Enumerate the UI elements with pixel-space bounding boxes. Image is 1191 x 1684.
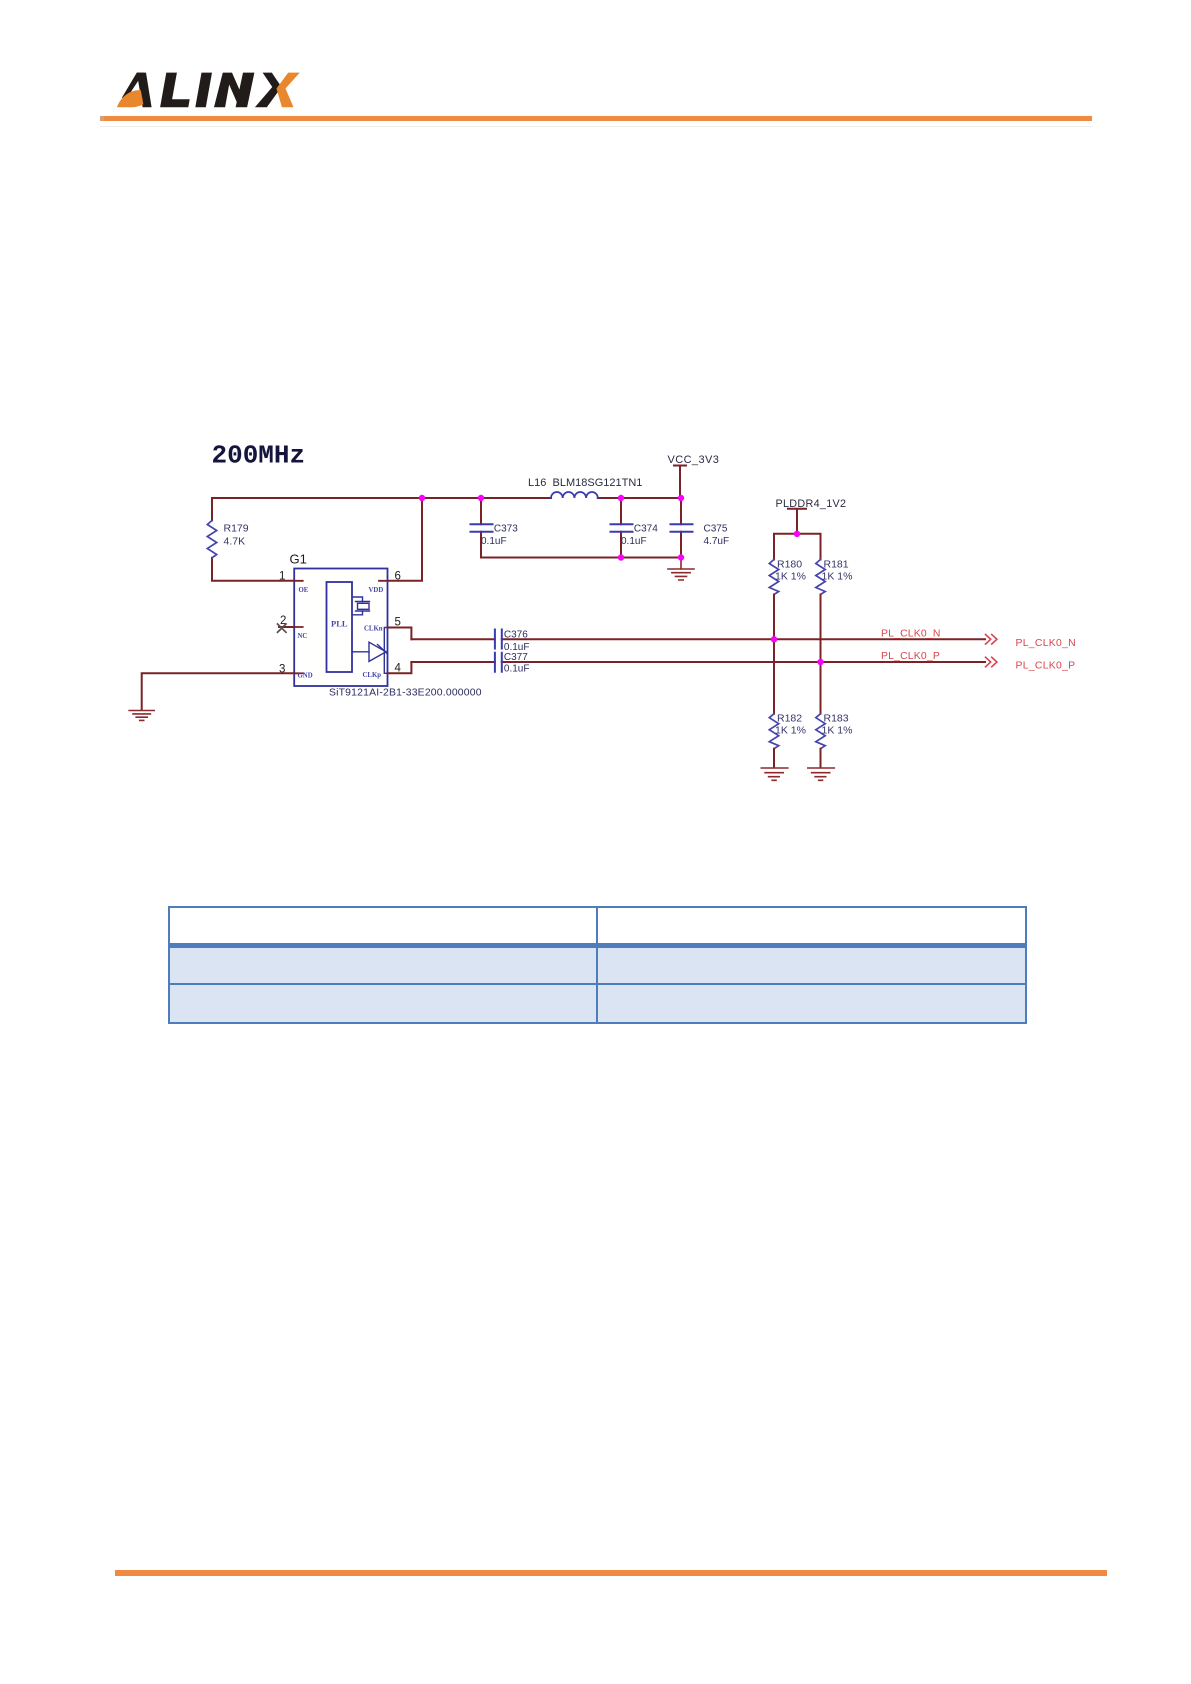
svg-text:0.1uF: 0.1uF xyxy=(481,536,507,547)
resistor R181 xyxy=(816,559,853,595)
capacitor C375 xyxy=(671,498,730,558)
capacitor C377 xyxy=(411,652,985,675)
capacitor C376 xyxy=(411,630,985,654)
wire pin6 riser xyxy=(388,498,423,581)
svg-text:VCC_3V3: VCC_3V3 xyxy=(668,454,720,466)
IC G1 SiT9121 oscillator xyxy=(279,552,402,687)
inductor L16 xyxy=(528,477,642,498)
svg-text:4.7uF: 4.7uF xyxy=(704,536,730,547)
svg-text:1K 1%: 1K 1% xyxy=(822,725,853,737)
svg-text:C376: C376 xyxy=(504,630,528,641)
wire top rail left xyxy=(212,497,551,499)
wire N line to R182 xyxy=(773,639,775,713)
pin inner stubs xyxy=(294,581,387,674)
svg-text:L16: L16 xyxy=(528,477,546,489)
svg-text:R179: R179 xyxy=(224,523,249,535)
pin2 NC stub xyxy=(279,626,294,628)
letter L xyxy=(160,73,190,108)
power VCC_3V3 xyxy=(668,454,720,498)
svg-text:6: 6 xyxy=(395,571,401,583)
letter A orange swoosh xyxy=(117,90,143,107)
letter X black part xyxy=(255,73,282,108)
wire R181 to P line xyxy=(820,595,822,663)
PLL block xyxy=(327,582,353,672)
svg-text:CLKn: CLKn xyxy=(364,626,383,633)
svg-text:R180: R180 xyxy=(777,559,802,571)
svg-text:1: 1 xyxy=(279,571,285,583)
svg-text:PL_CLK0_P: PL_CLK0_P xyxy=(1016,661,1076,672)
letter A black xyxy=(137,73,152,108)
port chevron N xyxy=(986,635,997,645)
ALINX logo xyxy=(0,0,1191,140)
svg-text:G1: G1 xyxy=(290,552,307,567)
letter N xyxy=(214,73,254,108)
svg-text:R181: R181 xyxy=(824,559,849,571)
svg-text:VDD: VDD xyxy=(369,587,384,594)
svg-text:PLL: PLL xyxy=(331,619,348,629)
header orange rule xyxy=(100,116,1092,121)
power PLDDR4_1V2 xyxy=(774,498,846,560)
wire pin4 to P line xyxy=(388,662,412,673)
pin labels xyxy=(298,587,384,680)
resistor R179 xyxy=(207,498,294,581)
svg-text:C377: C377 xyxy=(504,652,528,663)
output buffer triangle xyxy=(352,628,388,674)
svg-text:BLM18SG121TN1: BLM18SG121TN1 xyxy=(553,477,643,489)
svg-text:NC: NC xyxy=(298,633,308,640)
svg-text:PL_CLK0_N: PL_CLK0_N xyxy=(1016,638,1076,649)
svg-text:CLKp: CLKp xyxy=(363,672,382,679)
svg-text:C373: C373 xyxy=(494,524,518,535)
wire pin5 to N line xyxy=(388,628,412,640)
svg-text:PL_CLK0_N: PL_CLK0_N xyxy=(881,629,941,640)
port chevron P xyxy=(986,657,997,667)
svg-text:4.7K: 4.7K xyxy=(224,536,246,548)
svg-text:C375: C375 xyxy=(704,524,728,535)
ground under R183 xyxy=(808,768,835,780)
wire R180 to N line xyxy=(773,595,775,640)
svg-text:200MHz: 200MHz xyxy=(212,441,306,471)
svg-text:1K 1%: 1K 1% xyxy=(775,571,806,583)
footer orange rule xyxy=(115,1570,1107,1576)
svg-text:R183: R183 xyxy=(824,713,849,725)
ground at G1 pin3 xyxy=(129,711,154,721)
svg-text:1K 1%: 1K 1% xyxy=(775,725,806,737)
resistor R183 xyxy=(816,713,853,749)
svg-text:C374: C374 xyxy=(634,524,658,535)
svg-text:PLDDR4_1V2: PLDDR4_1V2 xyxy=(776,498,847,510)
letter I xyxy=(195,73,212,108)
capacitor C374 xyxy=(611,498,659,558)
svg-text:1K 1%: 1K 1% xyxy=(822,571,853,583)
no-ERC cross xyxy=(278,624,287,632)
svg-text:0.1uF: 0.1uF xyxy=(621,536,647,547)
junction dots xyxy=(419,495,824,665)
svg-text:SiT9121AI-2B1-33E200.000000: SiT9121AI-2B1-33E200.000000 xyxy=(329,688,482,699)
resistor R182 xyxy=(769,713,806,749)
svg-text:OE: OE xyxy=(299,587,309,594)
letter X orange part xyxy=(277,73,300,108)
wire R182 to ground xyxy=(773,749,775,768)
svg-text:0.1uF: 0.1uF xyxy=(504,664,530,675)
crystal symbol xyxy=(352,597,370,615)
wire R183 to ground xyxy=(820,749,822,768)
wire top rail right xyxy=(598,497,681,499)
wire caps bottom rail xyxy=(481,557,681,559)
resistor R180 xyxy=(769,559,806,595)
svg-text:R182: R182 xyxy=(777,713,802,725)
wire P line to R183 xyxy=(820,662,822,714)
wire pin3 to ground xyxy=(142,673,295,710)
parameter table xyxy=(168,906,1027,1024)
svg-text:GND: GND xyxy=(298,673,313,680)
svg-text:PL_CLK0_P: PL_CLK0_P xyxy=(881,651,940,662)
capacitor C373 xyxy=(471,498,519,558)
ground under R182 xyxy=(761,768,788,780)
ground under C375 xyxy=(668,558,694,581)
